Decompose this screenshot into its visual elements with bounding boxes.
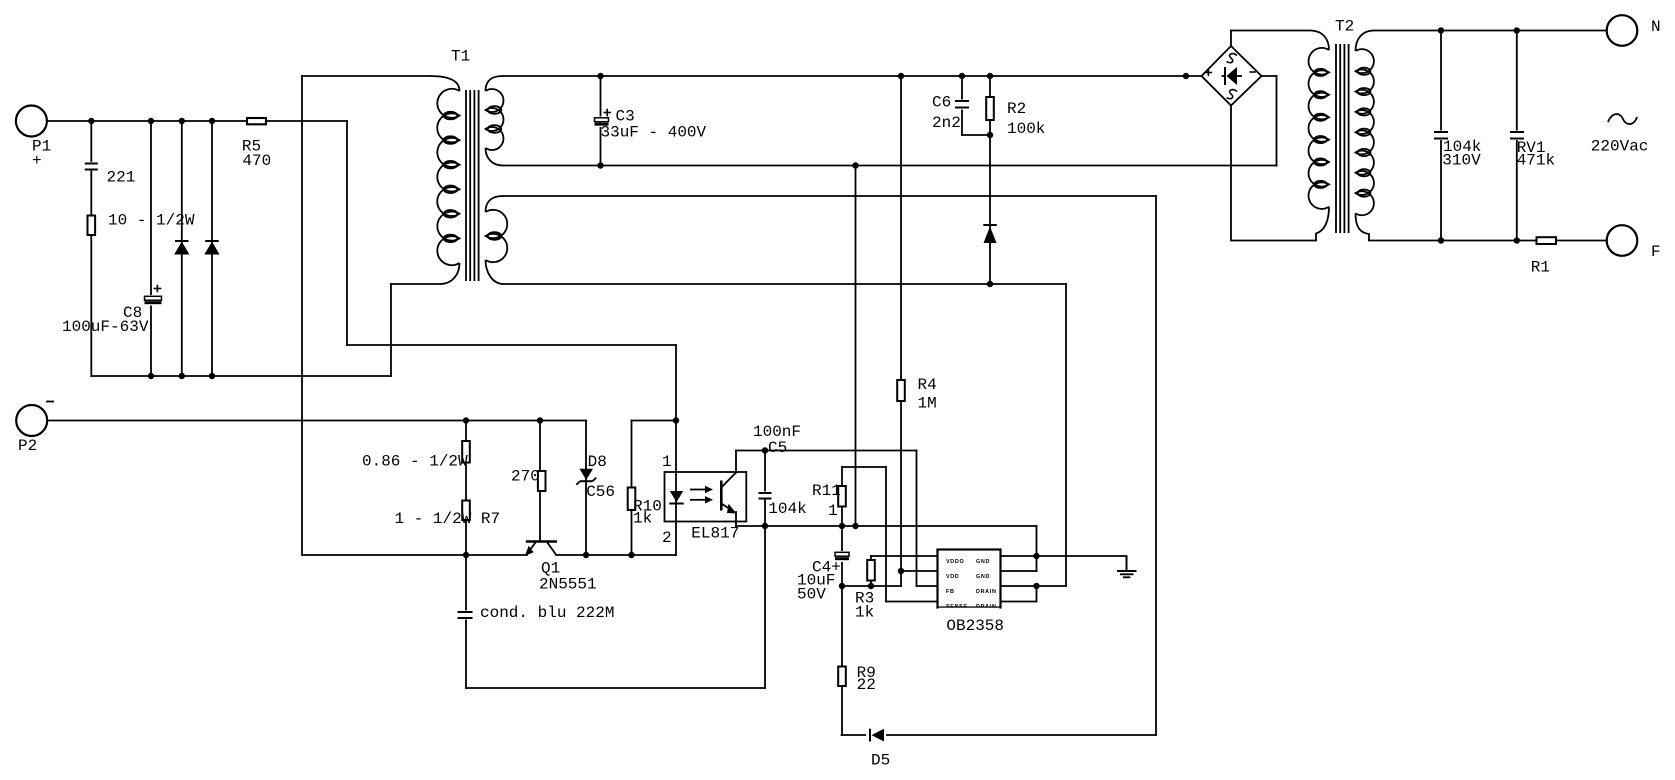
label P2 minus: [46, 401, 54, 403]
diode D-snub: [983, 224, 996, 226]
node VDD feed top junction: [898, 73, 904, 79]
T2 secondary winding: [1356, 31, 1374, 52]
svg-text:VDDO: VDDO: [946, 559, 964, 565]
node GND pins junction: [1033, 553, 1039, 559]
capacitor 104k 310V: [1433, 131, 1450, 141]
svg-text:GND: GND: [976, 574, 990, 580]
wire R10 branch x631: [631, 421, 633, 556]
svg-text:1 - 1/2W R7: 1 - 1/2W R7: [395, 510, 501, 528]
wire FB net y586: [842, 585, 901, 587]
terminal F: [1607, 225, 1638, 256]
varistor RV1: [1509, 131, 1526, 141]
svg-text:1: 1: [662, 453, 672, 471]
wire VDD stub: [901, 570, 938, 572]
node R10 bottom junction: [628, 552, 634, 558]
svg-text:GND: GND: [976, 559, 990, 565]
wire diode2 branch x212: [211, 121, 213, 376]
svg-text:1: 1: [828, 502, 838, 520]
wire DRAIN2 stub: [1001, 601, 1037, 603]
svg-text:1k: 1k: [633, 510, 652, 528]
node diode2 top junction: [209, 118, 215, 124]
svg-text:C56: C56: [586, 483, 615, 501]
wire primary top feed x302: [301, 76, 303, 555]
T1 primary winding: [430, 76, 460, 91]
wire C6 to R2 jog: [962, 134, 990, 136]
svg-text:R4: R4: [918, 376, 937, 394]
wire snubber return x855: [855, 166, 857, 527]
node R7 bottom junction: [463, 552, 469, 558]
diode D-in1: [175, 240, 189, 242]
svg-text:22: 22: [857, 676, 876, 694]
svg-text:100uF-63V: 100uF-63V: [62, 318, 149, 336]
svg-text:T1: T1: [451, 48, 470, 66]
svg-text:1k: 1k: [855, 604, 874, 622]
node DRAIN pins junction: [1033, 583, 1039, 589]
transistor Q1 2N5551: [526, 540, 557, 543]
wire opto LED branch x676: [675, 345, 677, 555]
terminal P1: [16, 106, 47, 137]
node D8 bottom junction: [583, 552, 589, 558]
wire GND1 stub: [1001, 555, 1127, 557]
node snubber return junction: [852, 162, 858, 168]
resistor R5: [247, 118, 266, 124]
wire R5 right drop x347: [346, 121, 348, 345]
wire 104k cap branch x1441: [1440, 31, 1442, 241]
bridge rectifier: [1202, 46, 1262, 106]
node resistor chain top junction: [463, 417, 469, 423]
node snubber bottom junction: [987, 281, 993, 287]
wire GND2 stub: [1001, 570, 1037, 572]
diode D-in2: [205, 240, 219, 242]
wire aux drop x1156: [1155, 196, 1157, 735]
svg-text:N: N: [1651, 18, 1661, 36]
terminal P2: [16, 405, 47, 436]
wire bridge right drop x1276: [1276, 76, 1278, 166]
T1 secondary winding 2 (aux): [486, 196, 504, 212]
wire D5 rail y735: [842, 734, 1157, 736]
svg-text:2N5551: 2N5551: [539, 576, 597, 594]
svg-text:R2: R2: [1007, 100, 1026, 118]
wire diode1 branch x182: [181, 121, 183, 376]
node C6 R2 junction: [987, 132, 993, 138]
wire C3 branch x600: [600, 76, 602, 166]
wire DRAIN tie x1036: [1036, 586, 1038, 602]
node RV1 top junction: [1514, 27, 1520, 33]
node R2 top junction: [987, 73, 993, 79]
svg-text:50V: 50V: [797, 586, 826, 604]
wire input cap chain x91: [90, 121, 92, 376]
node RV1 bottom junction: [1514, 237, 1520, 243]
wire opto emitter net y526: [736, 525, 1037, 527]
zener D8: [580, 469, 594, 480]
wire T2 bottom rail left: [1232, 240, 1316, 242]
node diode2 bottom junction: [209, 373, 215, 379]
wire emitter rail left: [303, 554, 527, 556]
wire collector rail right: [556, 554, 676, 556]
wire FB drop x918: [916, 451, 918, 587]
capacitor cond blu 222M: [457, 611, 473, 620]
node C5 bottom junction: [762, 523, 768, 529]
wire VDDO stub: [871, 555, 938, 557]
wire T1 primary bottom: [391, 283, 441, 285]
wire aux winding bottom rail y284: [503, 283, 1066, 285]
svg-text:0.86 - 1/2W: 0.86 - 1/2W: [362, 453, 468, 471]
wire R3 branch x871: [870, 556, 872, 586]
wire VDD feed x901: [900, 76, 902, 586]
wire primary bottom drop x391: [390, 284, 392, 376]
node snubber return bottom junction: [852, 523, 858, 529]
opto phototransistor: [720, 481, 723, 511]
svg-text:100k: 100k: [1007, 120, 1045, 138]
resistor R7 1-1/2W: [462, 501, 470, 521]
wire aux winding top rail y196: [503, 195, 1156, 197]
svg-text:220Vac: 220Vac: [1591, 138, 1649, 156]
node C8 bottom junction: [148, 373, 154, 379]
wire R11 C4 R9 chain x842: [841, 467, 843, 735]
node 270 top junction: [537, 417, 543, 423]
node 104k cap top junction: [1438, 27, 1444, 33]
node C4 bottom junction: [839, 583, 845, 589]
svg-text:1M: 1M: [918, 395, 937, 413]
svg-text:10 - 1/2W: 10 - 1/2W: [108, 212, 195, 230]
svg-text:VDD: VDD: [946, 574, 959, 580]
node bridge input junction: [1183, 73, 1189, 79]
svg-text:2: 2: [662, 529, 672, 547]
svg-text:C5: C5: [768, 439, 787, 457]
wire secondary bottom rail y166: [503, 165, 1277, 167]
node 104k cap bottom junction: [1438, 237, 1444, 243]
svg-text:2n2: 2n2: [932, 114, 961, 132]
svg-text:F: F: [1651, 243, 1661, 261]
TRANSFORMER T2: [1309, 31, 1374, 241]
wire top secondary rail: [503, 75, 1202, 77]
svg-text:OB2358: OB2358: [946, 617, 1004, 635]
capacitor C6: [954, 100, 971, 110]
wire bottom return y688: [466, 687, 765, 689]
wire DRAIN riser x1066: [1065, 284, 1067, 586]
node VDD pin junction: [898, 568, 904, 574]
wire GND tie x1036: [1036, 526, 1038, 571]
wire R2 snubber branch x990: [989, 76, 991, 284]
resistor R2: [986, 97, 994, 120]
wire T2 bottom rail right to F: [1369, 240, 1607, 242]
wire T2 top rail right to N: [1373, 30, 1607, 32]
node R11 bottom junction: [839, 523, 845, 529]
IC OB2358: [938, 550, 1001, 608]
capacitor 221: [84, 162, 99, 171]
resistor R4: [897, 380, 905, 401]
svg-text:104k: 104k: [768, 500, 806, 518]
capacitor C3 electrolytic: [594, 117, 610, 128]
wire bridge right lead: [1262, 75, 1277, 77]
T2 primary winding: [1311, 31, 1329, 51]
wire P1 top rail: [47, 120, 347, 122]
resistor 10-1/2W: [88, 216, 96, 236]
node C3 bottom junction: [597, 162, 603, 168]
terminal N: [1607, 15, 1638, 46]
resistor R11: [838, 486, 846, 507]
svg-text:R1: R1: [1531, 259, 1550, 277]
capacitor C4 electrolytic: [834, 551, 850, 562]
svg-text:D8: D8: [588, 453, 607, 471]
T2 core: [1335, 44, 1337, 233]
diode D5: [866, 728, 886, 743]
svg-text:270: 270: [511, 468, 540, 486]
svg-text:T2: T2: [1335, 18, 1354, 36]
ground: [1126, 556, 1128, 571]
wire P2 rail y420: [47, 420, 586, 422]
svg-text:P2: P2: [18, 437, 37, 455]
node C6 top junction: [959, 73, 965, 79]
wire RV1 branch x1516: [1516, 31, 1518, 241]
resistor R1: [1537, 237, 1557, 244]
wire D8 branch x586: [585, 421, 587, 556]
svg-text:R11: R11: [812, 482, 841, 500]
wire bridge bottom leg x1231: [1230, 106, 1232, 241]
wire DRAIN1 stub: [1001, 585, 1067, 587]
T1 secondary winding 1: [486, 76, 504, 91]
opto arrows: [690, 489, 706, 491]
node C3 top junction: [597, 73, 603, 79]
wire R11 top jog y467: [842, 466, 886, 468]
wire C6 branch x962: [961, 76, 963, 135]
wire C8 branch x151: [150, 121, 152, 376]
resistor 270: [538, 471, 546, 491]
wire opto pin3 stub: [735, 512, 737, 526]
wire bridge top lead: [1230, 31, 1232, 47]
svg-text:221: 221: [107, 169, 136, 187]
resistor R10: [628, 488, 636, 511]
T1 core: [465, 90, 467, 281]
node R3 bottom junction: [868, 583, 874, 589]
wire resistor chain x466: [465, 421, 467, 689]
svg-text:FB: FB: [946, 589, 955, 595]
node cap-chain top junction: [88, 118, 94, 124]
svg-text:cond. blu 222M: cond. blu 222M: [480, 604, 614, 622]
svg-text:471k: 471k: [1517, 152, 1555, 170]
node C5 top junction: [762, 447, 768, 453]
wire T2 top rail left: [1231, 30, 1311, 32]
resistor R9: [838, 667, 846, 687]
svg-text:470: 470: [242, 152, 271, 170]
wire opto pin4 stub: [735, 451, 737, 473]
wire opto collector to FB y450: [736, 450, 917, 452]
svg-text:C6: C6: [932, 94, 951, 112]
AC source squiggle: [1608, 114, 1637, 124]
node C8 top junction: [148, 118, 154, 124]
wire SENSE drop x886: [885, 467, 887, 602]
resistor 0.86-1/2W: [462, 441, 470, 463]
node diode1 bottom junction: [179, 373, 185, 379]
wire R5 feed y345: [347, 344, 676, 346]
svg-text:D5: D5: [871, 752, 890, 770]
svg-text:33uF - 400V: 33uF - 400V: [601, 124, 707, 142]
wire 270 branch x540: [539, 421, 541, 542]
wire input bottom rail y376: [91, 375, 391, 377]
wire C5 branch x765: [764, 451, 766, 689]
wire R10 jog: [632, 420, 677, 422]
svg-text:EL817: EL817: [691, 525, 739, 543]
TRANSFORMER T1: [430, 76, 507, 284]
capacitor C8 electrolytic: [144, 295, 162, 306]
resistor R3: [867, 560, 875, 581]
optocoupler U-EL817 box: [665, 472, 747, 522]
wire SENSE stub: [886, 601, 938, 603]
svg-text:310V: 310V: [1442, 152, 1481, 170]
svg-text:+: +: [32, 152, 42, 170]
capacitor C5: [757, 492, 773, 500]
svg-text:DRAIN: DRAIN: [976, 589, 997, 595]
node diode1 top junction: [179, 118, 185, 124]
node opto pin1 junction: [673, 417, 679, 423]
wire primary top rail to T1: [302, 75, 430, 77]
opto LED: [670, 491, 683, 502]
